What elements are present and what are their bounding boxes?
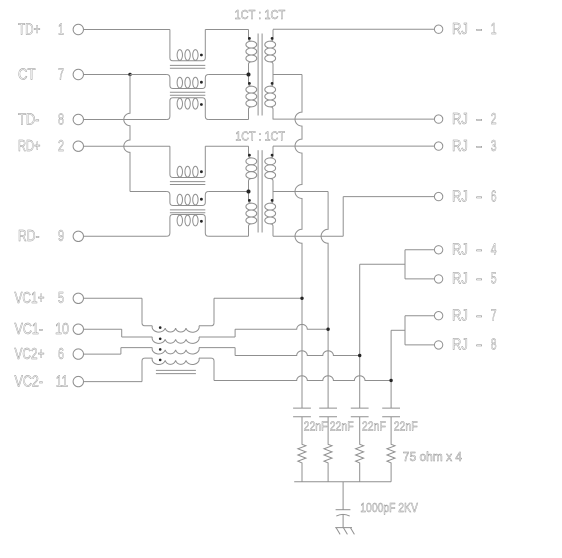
svg-text:-: - <box>476 269 483 287</box>
capacitor C2 22nF <box>319 408 353 434</box>
wire T2 secondary center tap to drop line <box>273 191 328 193</box>
pin RJ-1 terminal <box>434 19 496 38</box>
svg-text:5: 5 <box>491 269 497 287</box>
svg-text:-: - <box>476 187 483 205</box>
pin RJ-6 terminal <box>434 187 496 206</box>
capacitor C3 22nF <box>351 408 386 434</box>
ground (chassis) <box>335 528 354 535</box>
svg-text:-: - <box>476 109 483 127</box>
wire choke LA to T1 primary top <box>205 29 248 31</box>
capacitor C5 1000pF 2KV <box>336 482 418 528</box>
wire T1 secondary top to RJ-1 <box>273 28 434 30</box>
svg-text:6: 6 <box>58 345 64 363</box>
wire RJ-7/RJ-8 bracket <box>391 316 434 345</box>
svg-text:-: - <box>476 306 483 324</box>
wire drop line 2 (T2 CT down to C2) <box>321 192 328 409</box>
choke LA winding W3 (TD-) <box>167 98 209 120</box>
pin RJ-5 terminal <box>434 269 496 288</box>
svg-text:VC1+: VC1+ <box>15 288 45 306</box>
svg-text:11: 11 <box>56 372 69 390</box>
svg-text:2: 2 <box>58 137 64 155</box>
wire TD- (pin 8 to choke LA) <box>84 119 167 121</box>
svg-text:9: 9 <box>58 227 64 245</box>
wire drop line 4 (to C4) <box>390 330 392 408</box>
pin 11 (VC2-) terminal <box>15 372 84 391</box>
wire choke LC row4 to junction on drop 4 <box>199 358 393 382</box>
pin RJ-2 terminal <box>434 109 496 128</box>
junction T1 primary center tap <box>247 73 251 77</box>
pin 10 (VC1-) terminal <box>15 321 84 339</box>
svg-text:RJ: RJ <box>452 188 468 206</box>
pin 8 (TD-) terminal <box>18 110 84 128</box>
junction CT node <box>128 73 131 76</box>
svg-text:1CT : 1CT: 1CT : 1CT <box>235 128 285 143</box>
svg-text:RJ: RJ <box>452 138 468 156</box>
transformer T1 core <box>258 34 262 116</box>
pin 2 (RD+) terminal <box>18 137 84 155</box>
svg-text:CT: CT <box>18 66 36 83</box>
wire choke LB middle to T2 center tap <box>209 191 249 193</box>
choke LC winding row 4 (VC2-) <box>152 358 199 364</box>
capacitor C4 22nF <box>382 408 417 434</box>
resistor R1 75 ohm <box>298 417 306 482</box>
svg-text:RD+: RD+ <box>18 137 40 154</box>
label 1CT : 1CT (transformer T1) <box>235 7 286 22</box>
choke LB core <box>170 182 205 213</box>
wire choke LB to T2 primary bottom <box>209 235 249 237</box>
choke LC winding row 3 (VC2+) <box>152 348 199 354</box>
svg-text:VC2+: VC2+ <box>15 344 45 362</box>
junction T2 primary center tap <box>247 190 251 194</box>
svg-text:8: 8 <box>491 335 497 353</box>
pin RJ-4 terminal <box>434 240 497 259</box>
pin RJ-8 terminal <box>434 335 496 354</box>
wire RD- (pin 9 to choke LB) <box>84 235 167 237</box>
svg-text:RD-: RD- <box>18 228 40 246</box>
pin 7 (CT) terminal <box>18 65 84 83</box>
wire RJ-4/RJ-5 bracket <box>360 250 435 279</box>
wire RD+ (pin 2 to choke LB) <box>84 145 170 147</box>
choke LA winding W2 (CT) <box>167 75 209 89</box>
svg-text:-: - <box>476 240 483 258</box>
svg-text:RJ: RJ <box>452 307 468 325</box>
wire drop line 3 (to C3) <box>359 264 361 408</box>
label 75 ohm x 4 <box>403 449 462 464</box>
svg-text:2: 2 <box>491 110 497 128</box>
wire CT (pin 7 to junction) <box>84 74 130 76</box>
capacitor C1 22nF <box>293 408 327 434</box>
svg-text:-: - <box>476 136 483 154</box>
svg-text:RJ: RJ <box>452 241 468 259</box>
choke LA winding W1 (TD+) <box>170 30 205 61</box>
transformer T2 secondary bottom winding <box>265 192 276 237</box>
wire drop line 1 (T1 CT down to C1) <box>295 75 302 409</box>
resistor R4 75 ohm <box>387 417 395 482</box>
svg-text:1: 1 <box>58 20 64 38</box>
transformer T2 primary top winding <box>246 146 257 191</box>
wire choke LC row2 to junction on drop 2 <box>199 324 330 337</box>
choke LB winding W6 (RD-) <box>167 215 209 237</box>
transformer T1 secondary top winding <box>265 30 276 75</box>
svg-text:RJ: RJ <box>452 111 468 129</box>
svg-text:RJ: RJ <box>452 337 468 355</box>
svg-text:6: 6 <box>491 187 497 205</box>
svg-text:22nF: 22nF <box>330 418 354 433</box>
wire T2 secondary bottom to RJ-6 riser <box>273 197 434 237</box>
choke LC winding row 1 (VC1+) <box>152 326 199 332</box>
choke LC core <box>156 370 196 373</box>
svg-text:22nF: 22nF <box>304 418 328 433</box>
svg-text:75 ohm x 4: 75 ohm x 4 <box>403 449 462 464</box>
wire VC2+ (pin 6 to choke LC) <box>84 348 153 355</box>
transformer T1 primary bottom winding <box>246 75 257 120</box>
transformer T2 primary bottom winding <box>246 192 257 237</box>
svg-text:7: 7 <box>491 306 497 324</box>
wire termination bus <box>294 481 391 483</box>
transformer T1 secondary bottom winding <box>265 75 276 120</box>
svg-text:-: - <box>476 335 483 353</box>
resistor R3 75 ohm <box>356 417 364 482</box>
svg-text:8: 8 <box>58 110 64 128</box>
wire T1 secondary center tap to drop line <box>273 74 302 76</box>
svg-text:1: 1 <box>491 20 497 38</box>
svg-text:7: 7 <box>58 65 64 83</box>
wire VC1+ (pin 5 to choke LC) <box>84 298 153 326</box>
svg-text:22nF: 22nF <box>362 418 386 433</box>
wire choke LC row1 to junction on drop 1 <box>199 297 304 326</box>
pin 1 (TD+) terminal <box>18 19 84 37</box>
wire T2 secondary top to RJ-3 <box>273 145 434 147</box>
wire choke LA to T1 primary bottom <box>209 119 249 121</box>
wire TD+ (pin 1 to choke LA) <box>84 29 170 31</box>
svg-text:VC1-: VC1- <box>15 321 44 339</box>
svg-text:TD-: TD- <box>18 111 40 129</box>
svg-text:3: 3 <box>491 137 497 155</box>
svg-text:VC2-: VC2- <box>15 373 44 391</box>
svg-text:10: 10 <box>55 321 69 339</box>
svg-text:-: - <box>476 19 483 37</box>
wire choke LC row3 to junction on drop 3 <box>199 348 361 358</box>
svg-text:4: 4 <box>491 240 497 258</box>
svg-text:1000pF 2KV: 1000pF 2KV <box>360 501 418 515</box>
transformer T1 primary top winding <box>246 30 257 75</box>
label 1CT : 1CT (transformer T2) <box>235 128 285 143</box>
svg-text:RJ: RJ <box>452 21 468 39</box>
wire T1 secondary bottom to RJ-2 <box>273 118 434 120</box>
transformer T2 core <box>258 150 262 232</box>
svg-text:1CT : 1CT: 1CT : 1CT <box>235 7 286 22</box>
choke LC winding row 2 (VC1-) <box>152 337 199 343</box>
svg-text:5: 5 <box>58 289 64 307</box>
pin 9 (RD-) terminal <box>18 227 84 246</box>
wire VC1- (pin 10 to choke LC) <box>84 329 153 337</box>
svg-text:RJ: RJ <box>452 271 468 289</box>
wire CT branch down to choke LB middle <box>124 75 167 192</box>
wire choke LB to T2 primary top <box>205 145 248 147</box>
pin 6 (VC2+) terminal <box>15 344 84 362</box>
svg-text:TD+: TD+ <box>18 19 40 37</box>
wire choke LA middle to T1 center tap <box>209 74 249 76</box>
resistor R2 75 ohm <box>324 417 332 482</box>
pin RJ-3 terminal <box>434 136 496 155</box>
choke LA core <box>170 65 205 95</box>
choke LB winding W5 (CT) <box>167 192 209 206</box>
transformer T2 secondary top winding <box>265 146 276 191</box>
choke LB winding W4 (RD+) <box>170 146 205 177</box>
wire VC2- (pin 11 to choke LC) <box>84 358 153 382</box>
pin RJ-7 terminal <box>434 306 496 325</box>
svg-text:22nF: 22nF <box>394 418 418 433</box>
pin 5 (VC1+) terminal <box>15 288 84 306</box>
wire CT junction to choke LA middle <box>130 74 167 76</box>
